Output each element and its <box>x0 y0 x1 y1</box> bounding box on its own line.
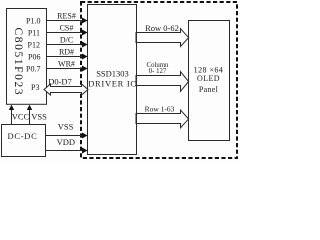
svg-text:DC-DC: DC-DC <box>8 131 38 141</box>
wire VCC (DC-DC to MCU) <box>11 109 13 125</box>
DC-DC converter box <box>2 125 46 157</box>
svg-text:P11: P11 <box>28 28 40 37</box>
svg-text:P1.0: P1.0 <box>26 16 40 25</box>
svg-text:D0-D7: D0-D7 <box>48 76 72 86</box>
svg-text:VDD: VDD <box>57 137 75 147</box>
wire CS# <box>46 32 83 34</box>
128x64 OLED panel box <box>189 21 230 141</box>
driver box right edge (over arrow shafts) <box>136 4 138 155</box>
svg-text:RD#: RD# <box>59 48 74 57</box>
svg-text:C8051F023: C8051F023 <box>12 28 24 97</box>
svg-text:0- 127: 0- 127 <box>149 68 167 75</box>
wire D/C <box>46 44 83 46</box>
dashed OLED module boundary <box>81 2 237 158</box>
wire VSS (DC-DC to MCU) <box>29 109 31 125</box>
svg-text:Panel: Panel <box>199 85 219 94</box>
svg-text:Row 0-62: Row 0-62 <box>145 23 179 33</box>
svg-text:RES#: RES# <box>57 12 76 21</box>
svg-text:P12: P12 <box>28 40 40 49</box>
svg-text:VSS: VSS <box>58 122 74 132</box>
block arrow Row 0-62 <box>136 29 189 47</box>
block arrow Column 0-127 <box>136 72 189 92</box>
svg-text:WR#: WR# <box>58 60 75 69</box>
svg-text:P06: P06 <box>28 53 40 62</box>
svg-text:DRIVER IC: DRIVER IC <box>88 79 137 89</box>
block arrow Row 1-63 <box>136 110 189 128</box>
wire VSS (DC-DC to driver) <box>45 135 83 137</box>
svg-text:CS#: CS# <box>60 24 74 33</box>
wire VDD (DC-DC to driver) <box>45 150 83 152</box>
svg-text:P0.7: P0.7 <box>26 65 40 74</box>
svg-text:SSD1303: SSD1303 <box>96 69 129 79</box>
wire RES# <box>46 20 83 22</box>
MCU U1 C8051F023 box <box>7 9 47 105</box>
svg-text:Row 1-63: Row 1-63 <box>145 104 175 113</box>
wire RD# <box>46 56 83 58</box>
svg-text:VSS: VSS <box>31 112 47 122</box>
svg-text:P3: P3 <box>31 83 39 92</box>
svg-text:OLED: OLED <box>197 74 220 83</box>
SSD1303 driver IC box <box>88 5 137 155</box>
svg-text:D/C: D/C <box>60 36 73 45</box>
svg-text:VCC: VCC <box>12 112 30 122</box>
bus D0-D7 (bidirectional) <box>44 84 88 95</box>
wire WR# <box>46 68 83 70</box>
